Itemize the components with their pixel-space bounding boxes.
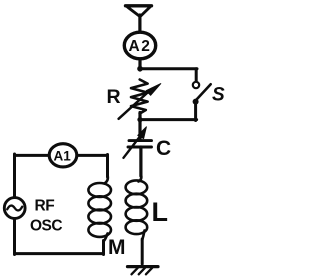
wire R to junction bottom xyxy=(138,113,141,140)
svg-text:A2: A2 xyxy=(129,38,152,55)
svg-text:RF: RF xyxy=(35,198,55,215)
svg-text:S: S xyxy=(212,85,225,106)
wire left loop top xyxy=(15,154,108,157)
inductor primary coil xyxy=(88,175,111,255)
wire A2 to junction xyxy=(138,59,141,70)
ammeter A2 xyxy=(124,32,155,59)
wire bottom branch from switch xyxy=(139,118,197,121)
wire left loop right side xyxy=(106,155,109,178)
node junction bottom xyxy=(137,117,142,122)
RF oscillator source xyxy=(4,198,25,219)
resistor R (variable) xyxy=(119,80,161,119)
switch S xyxy=(193,82,211,121)
wire C to coil L xyxy=(139,147,142,176)
capacitor C (variable) xyxy=(124,127,152,158)
svg-text:A1: A1 xyxy=(54,149,72,164)
node junction top xyxy=(137,66,143,72)
svg-text:R: R xyxy=(107,86,121,108)
wire top branch to switch xyxy=(139,67,197,70)
wire left loop left side xyxy=(13,154,16,255)
inductor L (secondary coil) xyxy=(126,174,148,264)
wire left loop bottom xyxy=(15,252,104,255)
wire switch drop xyxy=(195,69,198,82)
svg-text:C: C xyxy=(156,137,171,160)
antenna xyxy=(126,6,152,32)
ammeter A1 xyxy=(49,144,77,167)
svg-text:L: L xyxy=(152,197,169,227)
svg-text:M: M xyxy=(108,236,126,259)
ground xyxy=(128,267,159,275)
svg-text:OSC: OSC xyxy=(30,218,62,235)
